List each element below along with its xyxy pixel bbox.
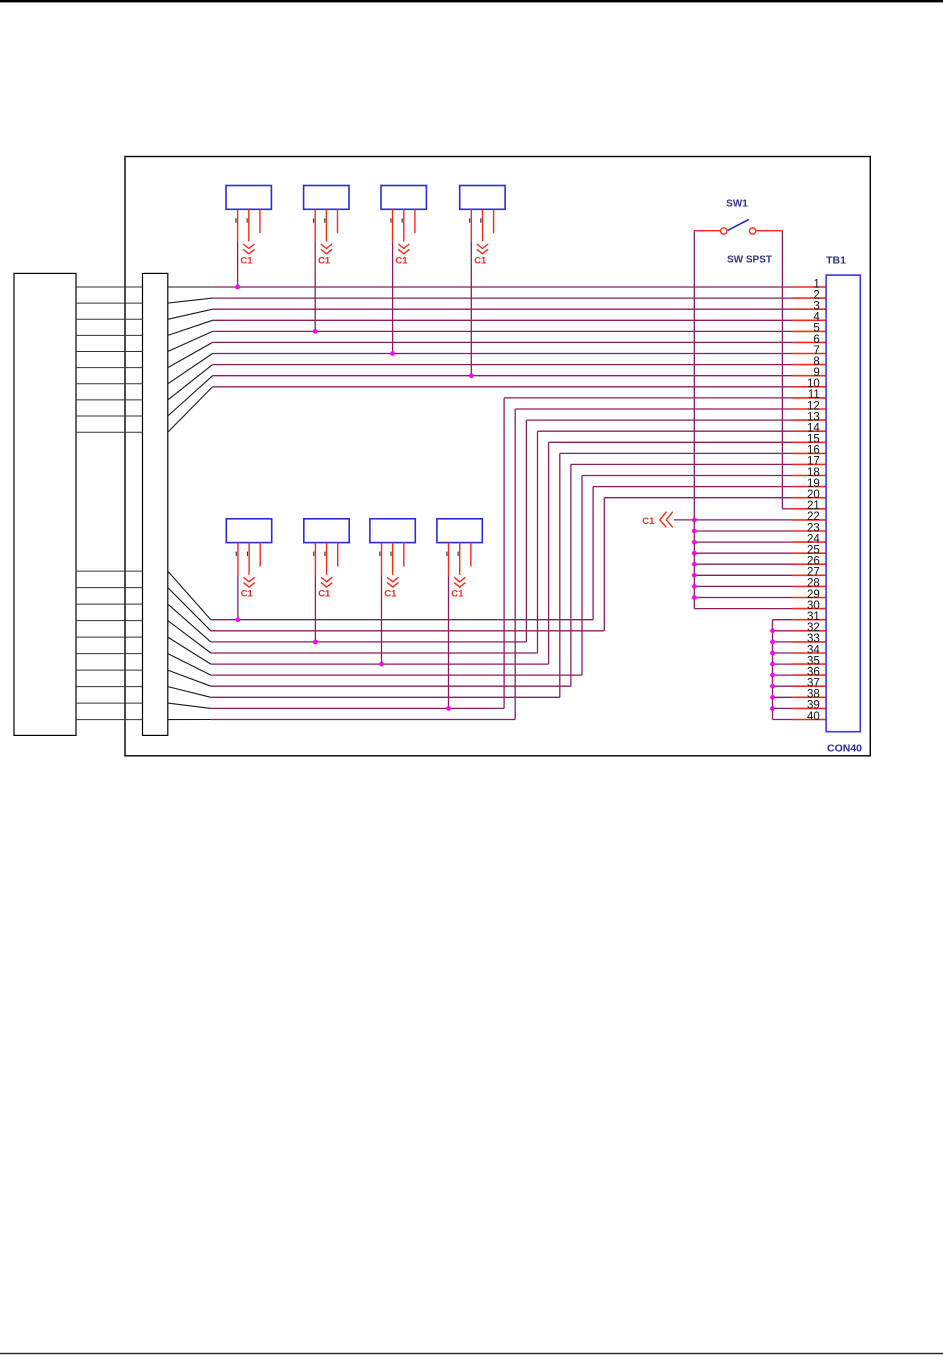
svg-text:C1: C1: [241, 589, 254, 600]
svg-text:C1: C1: [474, 255, 487, 266]
svg-text:CON40: CON40: [827, 743, 862, 755]
svg-text:C1: C1: [318, 589, 331, 600]
svg-text:C1: C1: [318, 255, 331, 266]
svg-text:SW SPST: SW SPST: [727, 255, 772, 266]
svg-text:C1: C1: [240, 255, 253, 266]
svg-text:C1: C1: [451, 589, 464, 600]
svg-text:C1: C1: [642, 516, 655, 527]
svg-text:40: 40: [807, 711, 820, 723]
svg-text:C1: C1: [384, 589, 397, 600]
svg-text:TB1: TB1: [826, 255, 846, 267]
svg-text:C1: C1: [395, 255, 408, 266]
svg-text:SW1: SW1: [726, 199, 748, 210]
